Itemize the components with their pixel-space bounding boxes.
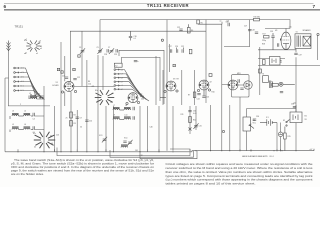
transformer T3 — [263, 76, 273, 88]
resistor R14 — [272, 84, 278, 87]
wire if screen lead — [155, 56, 157, 105]
svg-text:b3: b3 — [50, 136, 52, 138]
wire ls return — [295, 49, 297, 151]
resistor R9 — [189, 49, 192, 54]
svg-text:MR1: MR1 — [237, 73, 241, 75]
wire trimmer lead 2 — [112, 106, 114, 152]
svg-text:47k: 47k — [92, 86, 95, 88]
svg-text:R6: R6 — [191, 30, 193, 32]
det caps — [238, 79, 244, 89]
wire output cathode rail — [258, 64, 320, 66]
wire gang lead 4 — [146, 106, 148, 152]
wire volume top — [247, 109, 276, 151]
svg-text:a3: a3 — [40, 46, 42, 48]
svg-text:C9: C9 — [80, 118, 82, 120]
osc coils L7 L8 row — [113, 107, 134, 110]
svg-text:receiver switched to the M ban: receiver switched to the M band and usin… — [166, 167, 314, 170]
svg-text:L2: L2 — [29, 93, 31, 95]
wire return lead 1 — [57, 148, 190, 156]
labels output grid — [262, 40, 266, 46]
wire return lead 2 — [110, 150, 194, 157]
svg-text:R18: R18 — [262, 44, 265, 46]
valve V3 — [166, 81, 176, 91]
wire det lead 3 — [195, 106, 197, 130]
wire det can lead — [239, 97, 241, 151]
label cluster if2 — [141, 79, 215, 101]
wire af lead — [210, 105, 212, 151]
wire v1 cathode lead — [70, 92, 72, 152]
wire HT rail top — [100, 20, 290, 29]
svg-text:R5: R5 — [201, 23, 203, 25]
trimmer VC4 — [123, 140, 132, 146]
wire rail a1 — [198, 22, 222, 24]
trimmer C3 — [80, 48, 85, 54]
page top rule — [4, 3, 314, 5]
capacitor C28 — [248, 30, 251, 31]
svg-text:T3: T3 — [262, 74, 264, 76]
pin circle output — [317, 33, 319, 35]
svg-text:2: 2 — [20, 104, 21, 106]
svg-text:R17: R17 — [263, 34, 266, 36]
svg-text:C38: C38 — [291, 104, 294, 106]
wire right column — [276, 105, 296, 112]
wire v1 anode lead — [70, 31, 72, 81]
wire det ground lead — [229, 105, 231, 151]
svg-text:C7: C7 — [108, 47, 110, 49]
wire long agc vertical — [221, 24, 223, 151]
aerial coils L5 L6 row — [10, 126, 34, 132]
wire osc grid lead — [86, 60, 88, 152]
wire battery lead — [276, 123, 278, 151]
svg-text:C28: C28 — [252, 30, 255, 32]
svg-text:b5: b5 — [34, 147, 36, 149]
svg-text:C18: C18 — [104, 54, 107, 56]
wire osc anode lead — [97, 55, 99, 152]
svg-text:R2: R2 — [74, 115, 76, 117]
wire screen rail — [70, 30, 206, 32]
svg-text:C21: C21 — [181, 46, 184, 48]
svg-text:a2: a2 — [25, 39, 27, 41]
labels s1a — [25, 39, 42, 55]
capacitor C11 — [65, 77, 68, 78]
v3 cathode parts R7 C24 — [160, 92, 201, 98]
svg-text:VOL: VOL — [253, 122, 256, 124]
tag point boxes v1 — [57, 68, 75, 73]
wave band switch S1d contacts — [114, 69, 119, 90]
svg-text:C25: C25 — [206, 97, 209, 99]
wire aerial lead — [8, 42, 10, 106]
pin circle g — [222, 130, 224, 132]
capacitor C10 — [85, 120, 88, 121]
capacitor C16 — [129, 31, 132, 40]
wire v1 grid lead — [64, 56, 66, 106]
wave band switch S1b contacts — [14, 67, 19, 91]
svg-text:C5: C5 — [97, 47, 99, 49]
output cathode parts — [263, 59, 282, 65]
wire det lead 1 — [189, 106, 191, 134]
svg-text:L4: L4 — [24, 111, 26, 113]
wire v3 cathode step — [170, 149, 190, 151]
osc coils L9 L10 row — [113, 116, 134, 119]
svg-text:C41: C41 — [135, 150, 138, 152]
resistor R5 — [197, 20, 200, 24]
footer paragraph left — [11, 159, 155, 176]
svg-text:C11: C11 — [62, 76, 65, 78]
capacitor C12 — [73, 79, 76, 80]
resistor R6 — [187, 24, 190, 33]
jack J1 — [279, 82, 295, 86]
svg-text:7: 7 — [313, 4, 316, 9]
svg-text:ECH81: ECH81 — [53, 85, 59, 87]
capacitor C37 — [294, 53, 297, 54]
svg-text:SPEAKER: SPEAKER — [303, 29, 312, 32]
svg-text:T4: T4 — [296, 32, 298, 34]
svg-text:C13: C13 — [56, 135, 59, 137]
valve V1 ECH81 — [64, 81, 74, 91]
svg-text:S1e: S1e — [95, 90, 98, 92]
svg-text:than one ohm, the value is omi: than one ohm, the value is omitted. Valv… — [166, 171, 314, 174]
wire padder lead — [76, 110, 78, 152]
valve V6 DL96 — [280, 32, 291, 49]
wire det input — [222, 84, 244, 87]
svg-text:TR131: TR131 — [15, 25, 24, 29]
valve V4 — [199, 80, 209, 90]
svg-text:R9: R9 — [177, 79, 179, 81]
wire gang lead 3 — [139, 106, 141, 152]
svg-text:L10: L10 — [125, 114, 128, 116]
svg-text:a17: a17 — [310, 149, 313, 151]
wire ift drop — [99, 20, 101, 53]
wire v1 screen drop — [81, 31, 83, 86]
det chain C30 R12 — [188, 111, 191, 131]
svg-text:a3: a3 — [39, 41, 41, 43]
svg-text:c3: c3 — [111, 93, 113, 95]
svg-text:C19: C19 — [114, 54, 117, 56]
svg-text:C24: C24 — [197, 99, 200, 101]
wire coil row links — [35, 99, 44, 130]
svg-text:C17: C17 — [169, 46, 172, 48]
capacitor C25 — [202, 90, 205, 97]
wire right rail mid — [258, 50, 296, 59]
switch S2 — [286, 120, 290, 127]
svg-text:(t.p.) numbers which correspon: (t.p.) numbers which correspond with tho… — [166, 179, 313, 182]
resistor R8 — [209, 74, 212, 77]
svg-text:C22: C22 — [177, 27, 180, 29]
capacitor C9 — [76, 117, 79, 118]
capacitor C26 — [228, 23, 229, 26]
pin circles valve row — [126, 89, 211, 105]
bus end tag a17 — [313, 149, 315, 151]
svg-text:R15: R15 — [288, 136, 291, 138]
wire valve top feed — [285, 28, 287, 32]
svg-text:200: 200 — [141, 99, 144, 101]
svg-text:6: 6 — [4, 4, 7, 9]
svg-text:L3: L3 — [12, 111, 14, 113]
svg-text:R3: R3 — [74, 123, 76, 125]
svg-text:25: 25 — [66, 118, 68, 120]
svg-text:R7: R7 — [188, 95, 190, 97]
svg-text:0·1: 0·1 — [134, 38, 137, 40]
wire v1 bias lead — [54, 106, 56, 152]
resistor R3 — [70, 121, 73, 127]
wire mixer lead — [102, 56, 104, 90]
wire v1 output — [74, 85, 114, 87]
wire jack lead — [280, 123, 282, 151]
wire aerial coupling rail — [8, 105, 50, 107]
svg-text:S1c: S1c — [33, 133, 36, 135]
header rule — [4, 9, 320, 11]
trimmer VC3 — [102, 137, 107, 143]
capacitor C19 — [116, 49, 117, 52]
svg-text:TR131 RECEIVER: TR131 RECEIVER — [147, 3, 189, 8]
labels R4 C14 — [88, 81, 94, 88]
wire v3 screen lead — [181, 70, 183, 105]
svg-text:a13: a13 — [226, 21, 229, 23]
S1d selector fan wires — [120, 70, 150, 101]
wire output grid — [317, 35, 319, 60]
aerial coils L3 L4 row — [10, 113, 34, 119]
switch wafer S1a spokes — [26, 40, 41, 51]
tag point box tp4 — [173, 64, 175, 66]
svg-text:C34: C34 — [256, 116, 259, 118]
tp tick right — [294, 102, 297, 104]
switch wafer S1e spokes — [95, 90, 115, 105]
oscillator screen box — [119, 50, 164, 104]
valve V5 diode — [228, 80, 238, 90]
svg-text:C40: C40 — [150, 127, 153, 129]
trimmer C31 — [193, 123, 198, 129]
capacitor C18 — [107, 49, 108, 52]
switch wafer S1c spokes — [34, 132, 55, 149]
svg-text:L9: L9 — [113, 114, 115, 116]
wire ground bus — [5, 151, 314, 152]
svg-text:a15: a15 — [289, 27, 292, 29]
tag point box tp1 — [78, 55, 80, 57]
svg-text:0·01: 0·01 — [193, 113, 196, 115]
svg-text:C35: C35 — [270, 31, 273, 33]
svg-text:C3: C3 — [79, 47, 81, 49]
svg-text:C20: C20 — [175, 46, 178, 48]
aerial A1 — [7, 41, 11, 51]
output grid parts — [264, 33, 279, 50]
battery connector B2 — [290, 112, 302, 123]
capacitor C33 — [280, 92, 283, 93]
svg-text:types are listed on page 5. Co: types are listed on page 5. Component te… — [166, 175, 313, 178]
capacitor C34 — [253, 119, 256, 120]
svg-text:a4: a4 — [40, 48, 42, 50]
capacitor C29 — [134, 61, 137, 62]
svg-text:C4: C4 — [33, 119, 35, 121]
svg-text:tables printed on pages 8 and: tables printed on pages 8 and 10 of this… — [166, 183, 256, 186]
pin circle 11 — [161, 39, 163, 41]
resistor R13 — [259, 69, 262, 73]
svg-text:V3: V3 — [173, 79, 175, 81]
labels under bus — [135, 150, 143, 157]
wire HT drop to AGC rail — [224, 20, 250, 47]
svg-text:L5: L5 — [12, 124, 14, 126]
svg-text:S2: S2 — [283, 120, 285, 122]
svg-text:a5: a5 — [25, 53, 27, 55]
svg-text:C12: C12 — [77, 77, 80, 79]
resistor R16 — [254, 18, 260, 21]
svg-text:are on the hidden sides.: are on the hidden sides. — [11, 173, 44, 176]
wire return lead 3 — [140, 151, 197, 159]
resistor R15 — [284, 127, 287, 151]
wire osc section lead — [60, 42, 62, 152]
trimmer C5 — [97, 48, 102, 54]
capacitor C17 — [171, 49, 172, 52]
svg-text:VC4: VC4 — [124, 138, 127, 140]
svg-text:Circuit voltages are shown wit: Circuit voltages are shown within square… — [166, 163, 314, 166]
jack socket J2 — [278, 132, 282, 136]
svg-text:b4: b4 — [51, 143, 53, 145]
svg-text:C31: C31 — [199, 126, 202, 128]
svg-text:L6: L6 — [24, 124, 26, 126]
svg-text:V4: V4 — [275, 30, 277, 32]
svg-text:L8: L8 — [125, 105, 127, 107]
svg-text:MADE IN ADVANCE BAND APPD F: MADE IN ADVANCE BAND APPD FIG 1 — [242, 155, 274, 158]
capacitor C38 — [293, 107, 296, 108]
output transformer T4 — [295, 34, 311, 49]
wire mid vertical — [166, 20, 168, 151]
volume control VR1 — [243, 117, 254, 131]
capacitor C22 — [179, 29, 182, 30]
coil L11 — [121, 145, 128, 148]
svg-text:a9: a9 — [210, 82, 212, 84]
capacitor C20 cluster — [177, 48, 184, 53]
loudspeaker LS — [303, 36, 311, 46]
capacitor C27 — [255, 32, 258, 33]
wire ht mid vertical — [205, 20, 207, 103]
coil box T2 — [114, 63, 122, 67]
svg-text:C37: C37 — [299, 55, 302, 57]
bus junction dots — [17, 150, 296, 152]
svg-text:V1: V1 — [56, 82, 58, 84]
trimmer C7 — [109, 48, 114, 54]
wire double screened lead — [168, 44, 170, 72]
S1b selector fan wires — [20, 68, 45, 100]
svg-text:C10: C10 — [89, 121, 92, 123]
svg-text:L7: L7 — [113, 105, 115, 107]
svg-text:VC3: VC3 — [99, 135, 102, 137]
footer paragraph right — [166, 163, 314, 186]
svg-text:R11: R11 — [181, 114, 184, 116]
top battery box — [270, 57, 281, 66]
svg-text:a5: a5 — [36, 53, 38, 55]
svg-text:c4: c4 — [110, 102, 112, 104]
svg-text:B1: B1 — [305, 116, 307, 118]
svg-text:C2: C2 — [38, 94, 40, 96]
wire trimmer lead 1 — [105, 106, 107, 152]
wire agc lead — [172, 106, 174, 151]
aerial coil L2 cluster — [29, 95, 44, 99]
wire v2 grid lead — [162, 70, 164, 105]
svg-text:R10: R10 — [212, 92, 215, 94]
svg-text:R16 68k: R16 68k — [254, 17, 260, 19]
svg-text:a1: a1 — [220, 21, 222, 23]
v1 pin circles — [61, 90, 76, 93]
wire gang frame lead — [43, 86, 45, 152]
svg-text:b: b — [138, 61, 139, 63]
labels misc bottom — [66, 118, 153, 129]
svg-text:C42: C42 — [140, 155, 143, 157]
svg-text:220p: 220p — [262, 40, 266, 42]
detector screen can — [232, 75, 250, 97]
bus stubs — [18, 149, 281, 151]
wire af coupling lead — [259, 47, 261, 95]
resistor R2 — [70, 112, 73, 118]
battery B1 — [260, 119, 277, 125]
svg-text:50: 50 — [80, 127, 82, 129]
wire if lead — [158, 106, 160, 152]
svg-text:R12: R12 — [193, 120, 196, 122]
svg-text:C27: C27 — [244, 26, 247, 28]
wire det lead 2 — [194, 70, 196, 105]
diode circle — [244, 81, 252, 89]
valve V2 — [128, 93, 138, 103]
wire left edge — [5, 78, 9, 152]
